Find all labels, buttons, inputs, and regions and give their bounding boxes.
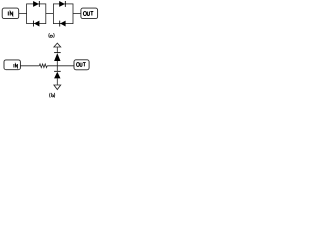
text OUT (a) xyxy=(83,11,93,15)
wire pair2 to OUT(a) xyxy=(73,13,81,15)
+V supply arrow (open, up) xyxy=(54,43,61,47)
diode D2 (pair1 bottom, pointing left) xyxy=(33,21,39,27)
diode D5 (pointing up) xyxy=(54,52,61,61)
text IN (b) xyxy=(14,64,18,68)
wire IN(a) to pair1 xyxy=(19,13,27,15)
label (b) xyxy=(50,93,55,98)
vertical wire D6 to -V arrow xyxy=(56,78,58,85)
diode D3 (pair2 top, pointing right) xyxy=(59,1,66,7)
vertical wire node to D6 xyxy=(56,66,58,71)
wire IN(b) to resistor xyxy=(20,47,74,85)
diode pair 1 loop xyxy=(27,4,46,24)
wire pair1 to pair2 xyxy=(46,13,54,15)
diode pair 2 loop xyxy=(53,4,73,24)
box IN (a) xyxy=(2,8,19,19)
vertical wire D5 to node xyxy=(56,61,58,66)
label (a) xyxy=(49,33,54,38)
text OUT (b) xyxy=(77,63,86,67)
text IN (a) xyxy=(8,12,12,16)
resistor R zigzag xyxy=(39,64,47,68)
box OUT (b) xyxy=(74,60,89,70)
box IN (b) xyxy=(4,60,20,70)
diode D4 (pair2 bottom, pointing left) xyxy=(59,21,65,27)
wire resistor to node to OUT(b) xyxy=(47,65,74,67)
vertical wire +V arrow to D5 xyxy=(56,47,58,52)
box OUT (a) xyxy=(81,8,98,19)
-V supply arrow (open, down) xyxy=(54,85,61,90)
diode D1 (pair1 top, pointing right) xyxy=(33,1,40,7)
diode D6 (pointing up) xyxy=(54,71,61,79)
